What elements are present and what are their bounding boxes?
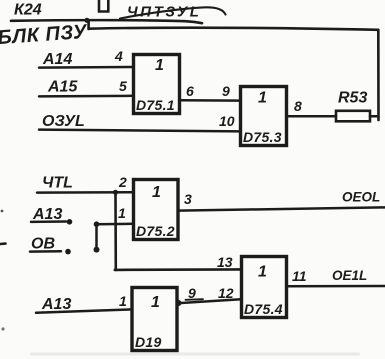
label CHPTZUL (struck out) bbox=[120, 4, 226, 21]
margin mark dot low bbox=[1, 327, 4, 330]
wire pin 1 of D75.2 bbox=[97, 223, 134, 226]
svg-text:1: 1 bbox=[119, 293, 127, 309]
node dot OB bbox=[65, 249, 71, 255]
margin mark dot bbox=[1, 210, 4, 213]
svg-text:2: 2 bbox=[118, 174, 127, 190]
node dot left of pin1 wire bbox=[94, 221, 100, 227]
svg-text:OE1L: OE1L bbox=[332, 268, 367, 283]
svg-text:3: 3 bbox=[184, 191, 192, 207]
node dot D19 output bbox=[176, 300, 182, 306]
junction dot on K24 net bbox=[84, 18, 89, 23]
svg-text:1: 1 bbox=[152, 184, 161, 201]
IC U2 D75.3 body bbox=[241, 87, 287, 146]
wire feedback right vertical bbox=[377, 30, 380, 120]
wire D75.4 pin11 output to OE1L bbox=[287, 285, 385, 288]
svg-text:1: 1 bbox=[258, 264, 267, 281]
wire K24 net horizontal bbox=[11, 20, 202, 23]
wire pin13 horizontal bbox=[115, 268, 241, 271]
wire OB stub bbox=[30, 250, 61, 253]
svg-text:ОЗУL: ОЗУL bbox=[42, 113, 85, 130]
wire vertical branch to pin13 bbox=[114, 192, 117, 270]
svg-text:9: 9 bbox=[222, 83, 230, 99]
wire feedback drop from junction bbox=[87, 20, 90, 29]
svg-text:6: 6 bbox=[186, 83, 194, 99]
wire D75.1 pin6 to D75.3 pin9 bbox=[180, 99, 241, 102]
svg-text:D75.2: D75.2 bbox=[136, 223, 175, 239]
svg-text:D75.4: D75.4 bbox=[244, 301, 283, 317]
svg-text:1: 1 bbox=[151, 294, 160, 311]
svg-text:D19: D19 bbox=[135, 334, 162, 350]
wire A13 stub bbox=[31, 220, 66, 223]
svg-text:R53: R53 bbox=[338, 90, 367, 107]
wire stub down bbox=[95, 224, 98, 249]
junction dot CHTL branch bbox=[113, 190, 118, 195]
IC U1 D75.1 body bbox=[134, 55, 180, 114]
connector symbol (top, cut off) bbox=[99, 0, 108, 12]
node dot bottom of stub bbox=[94, 247, 100, 253]
wire D75.2 pin3 output to OEOL bbox=[178, 207, 385, 210]
IC U4 D75.4 body bbox=[242, 257, 287, 318]
IC U5 D19 body bbox=[132, 288, 177, 351]
svg-text:ЧТL: ЧТL bbox=[42, 175, 73, 192]
svg-text:D75.3: D75.3 bbox=[243, 129, 282, 145]
svg-text:A14: A14 bbox=[42, 51, 72, 68]
svg-text:1: 1 bbox=[118, 205, 126, 221]
margin mark dash bbox=[0, 242, 6, 245]
svg-text:11: 11 bbox=[292, 268, 307, 284]
svg-text:ОВ: ОВ bbox=[31, 236, 55, 253]
svg-text:13: 13 bbox=[217, 254, 233, 270]
svg-text:К24: К24 bbox=[14, 2, 42, 19]
wire OZUL to pin 10 bbox=[39, 130, 240, 132]
svg-text:1: 1 bbox=[155, 57, 164, 74]
wire feedback top horizontal bbox=[89, 28, 378, 30]
wire D75.3 pin8 to R53 bbox=[287, 115, 336, 118]
resistor R53 body bbox=[336, 111, 370, 122]
svg-text:OEOL: OEOL bbox=[342, 190, 380, 205]
IC U3 D75.2 body bbox=[134, 180, 179, 240]
svg-text:БЛК ПЗУ: БЛК ПЗУ bbox=[0, 21, 89, 49]
svg-text:12: 12 bbox=[218, 285, 234, 301]
svg-text:D75.1: D75.1 bbox=[136, 97, 175, 113]
svg-text:10: 10 bbox=[219, 113, 235, 129]
wire A14 bbox=[39, 66, 133, 69]
svg-text:A15: A15 bbox=[47, 79, 78, 96]
svg-text:1: 1 bbox=[258, 90, 267, 107]
wire R53 to feedback vertical bbox=[370, 115, 378, 118]
wire A13 to D19 pin1 bbox=[36, 309, 132, 312]
pin 9 of D19 (struck) bbox=[186, 285, 204, 301]
node dot A13 bbox=[67, 219, 73, 225]
wire D19 pin9 to D75.4 pin12 bbox=[181, 299, 241, 303]
wire CHTL to pin 2 bbox=[37, 191, 133, 194]
wire A15 bbox=[39, 95, 133, 98]
scan smudge bottom bbox=[30, 353, 360, 356]
svg-text:A13: A13 bbox=[41, 296, 71, 313]
svg-text:4: 4 bbox=[114, 48, 123, 64]
svg-text:5: 5 bbox=[119, 78, 127, 94]
svg-text:8: 8 bbox=[294, 98, 302, 114]
